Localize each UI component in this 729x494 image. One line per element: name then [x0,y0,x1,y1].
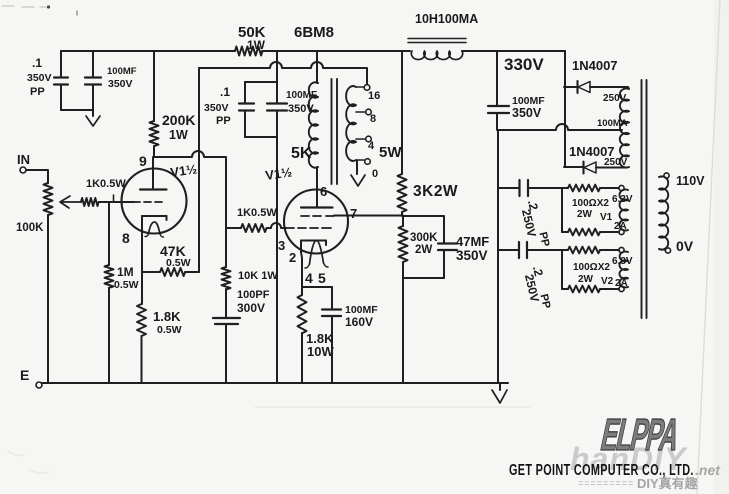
triode plate [140,188,167,190]
wire screen divider to ground [402,278,404,383]
svg-text:300V: 300V [237,301,265,315]
inductor choke 10H 100MA [408,38,466,40]
tube V1-triode envelope [122,169,187,234]
resistor R-1K 0.5W grid stopper [226,227,241,229]
wire screen pin 7 [334,215,403,217]
ground symbol (main) [499,383,501,390]
svg-text:2A: 2A [615,278,628,289]
wire decoupling ground return [276,137,278,383]
svg-text:100MF: 100MF [107,66,137,77]
transformer OPT secondary [346,86,356,161]
transformer PT heater winding V1 [619,185,624,190]
capacitor C-100MF 350V (left) [92,51,94,76]
triode heater [149,222,161,234]
svg-text:8: 8 [370,113,376,125]
svg-text:1N4007: 1N4007 [572,58,618,73]
capacitor C-100MF 350V (mid) [276,82,278,102]
capacitor C-0.2uF 250V PP (lower) [498,249,518,251]
wire V1 plate node [153,151,226,267]
svg-text:4: 4 [305,270,313,286]
resistor R-1K 0.5W (input) [81,198,99,206]
svg-text:=========: ========= [578,478,634,488]
svg-text:.1: .1 [220,85,230,99]
svg-text:100PF: 100PF [237,289,270,301]
wire heater group2 left rail [561,250,563,289]
resistor R-100ohm upper B [562,231,568,233]
pentode control grid (dashed) [286,227,331,229]
ground symbol (OPT secondary) [356,161,358,174]
svg-text:1K0.5W: 1K0.5W [237,207,277,219]
svg-text:100K: 100K [16,222,44,234]
wire feedback from 16-ohm tap [199,62,367,84]
wire CT ground vertical [497,130,499,383]
wire input [26,170,48,183]
svg-text:ELPPA: ELPPA [597,409,684,460]
svg-text:0V: 0V [676,238,694,254]
pentode plate [316,167,318,207]
resistor R-300K 2W [402,216,404,226]
transformer OPT core [331,79,333,184]
transformer OPT primary 5K [309,82,318,167]
svg-text:7: 7 [350,206,357,221]
tap 8 ohm [356,111,365,113]
resistor R-47K 0.5W feedback [142,271,160,273]
svg-text:PP: PP [216,115,231,127]
wire plate lead [152,158,154,188]
svg-text:100MF: 100MF [286,90,317,101]
wire ground rail [42,382,508,384]
svg-text:350V: 350V [27,72,52,84]
wire grid feed [99,201,134,203]
svg-text:.net: .net [695,462,721,478]
svg-text:2: 2 [289,250,296,265]
wire feedback vertical [198,68,200,272]
wire center-tap return [498,124,622,130]
wire heater group1 left rail [561,188,563,232]
potentiometer R-100K [44,183,53,215]
diode D1 1N4007 [564,86,576,88]
svg-text:10H100MA: 10H100MA [415,12,478,26]
pentode screen grid (dashed) [301,215,334,217]
transformer PT primary 110V [659,176,668,249]
pentode cathode [325,241,327,246]
svg-text:1M: 1M [117,265,134,279]
svg-text:100ΩX2: 100ΩX2 [572,198,609,209]
resistor R-100ohm upper A [562,187,568,189]
wire rectifier output vertical [564,51,566,167]
svg-text:0.5W: 0.5W [157,324,182,336]
svg-text:6: 6 [320,184,327,199]
svg-text:8: 8 [122,230,130,246]
capacitor C-47MF 350V [403,216,444,243]
svg-text:4: 4 [368,140,375,152]
wire B+ rail middle segment [262,50,410,52]
svg-text:3K2W: 3K2W [413,183,458,200]
wire B+ rail left segment [61,50,235,52]
svg-text:2W: 2W [578,274,594,285]
svg-text:47MF: 47MF [456,234,489,249]
svg-text:2W: 2W [415,244,432,256]
tube V1-pentode envelope [284,190,348,254]
transformer PT heater winding V2 [619,247,624,252]
svg-text:6.3V: 6.3V [612,256,633,267]
svg-text:2W: 2W [577,209,593,220]
svg-text:160V: 160V [345,315,373,329]
pentode heater [310,241,324,265]
wire pot bottom to ground [47,215,49,383]
svg-text:1.8K: 1.8K [153,309,181,324]
capacitor C-0.1uF 350V PP (left) [60,51,62,76]
svg-text:V1: V1 [600,212,613,223]
capacitor C-0.1uF 350V PP (mid) [245,81,277,83]
transformer PT core [641,80,643,318]
svg-text:100MA: 100MA [597,118,628,129]
svg-text:0.5W: 0.5W [114,279,139,291]
svg-text:200K: 200K [162,112,195,128]
resistor R-1.8K 10W cathode [301,287,303,295]
resistor R-50K 1W [235,47,262,56]
capacitor C-0.2uF 250V PP (upper) [498,187,518,189]
svg-text:10K 1W: 10K 1W [238,270,278,282]
capacitor C-100MF 160V cathode bypass [331,287,333,308]
svg-text:1W: 1W [169,128,188,142]
resistor R-200K 1W [153,51,155,121]
svg-text:350V: 350V [512,106,542,120]
tap 0 ohm [356,159,364,161]
svg-text:5W: 5W [379,144,402,161]
tap 16 ohm [356,86,364,88]
svg-text:IN: IN [17,152,30,167]
terminal E [36,382,42,388]
wire cathode branch [141,216,143,304]
svg-text:DIY真有趣: DIY真有趣 [637,476,699,491]
wire cap bottom link [61,109,93,111]
svg-text:16: 16 [368,90,380,102]
tap 4 ohm [356,138,365,140]
transformer PT HV secondary [620,88,629,167]
resistor R-1M 0.5W grid leak [108,202,110,265]
svg-text:100ΩX2: 100ΩX2 [573,262,610,273]
svg-text:350V: 350V [456,248,488,263]
triode grid (dashed) [134,201,162,203]
svg-text:0.5W: 0.5W [166,257,191,269]
svg-text:330V: 330V [504,55,544,74]
svg-text:350V: 350V [204,102,229,114]
capacitor C-100MF 350V (330V node) [496,51,498,105]
svg-text:V2: V2 [601,276,614,287]
svg-text:110V: 110V [676,174,705,188]
svg-text:0: 0 [372,168,378,180]
svg-text:5K: 5K [291,145,312,162]
svg-text:1W: 1W [247,38,266,52]
svg-text:5: 5 [318,270,326,286]
svg-text:3: 3 [278,238,285,253]
wire B+ rail right segment [462,50,565,52]
resistor R-100ohm lower B [562,288,568,290]
svg-text:.1: .1 [32,56,42,70]
svg-text:E: E [20,367,29,383]
capacitor C-100PF 300V [225,289,227,317]
svg-text:250V: 250V [603,93,627,104]
terminal IN [20,167,26,173]
svg-text:9: 9 [139,153,147,169]
svg-text:300K: 300K [410,232,438,244]
svg-text:350V: 350V [108,78,133,90]
svg-text:10W: 10W [307,344,334,359]
resistor R-3K 2W screen [401,51,403,174]
triode cathode [166,216,168,220]
svg-text:1K0.5W: 1K0.5W [86,178,126,190]
wire pentode cathode lead [301,252,332,287]
wire pentode plate feed [316,51,318,83]
svg-text:6BM8: 6BM8 [294,24,334,41]
logo ELPPA [597,409,684,460]
resistor R-10K 1W [222,267,231,289]
resistor R-100ohm lower A [562,249,568,251]
ground symbol (top-left) [86,116,100,126]
resistor R-1.8K 0.5W cathode [137,304,146,336]
svg-text:6.3V: 6.3V [612,194,633,205]
wire decoupling stem [276,51,278,82]
svg-text:PP: PP [30,86,45,98]
svg-text:2A: 2A [614,221,627,232]
diode D2 1N4007 [564,166,582,168]
